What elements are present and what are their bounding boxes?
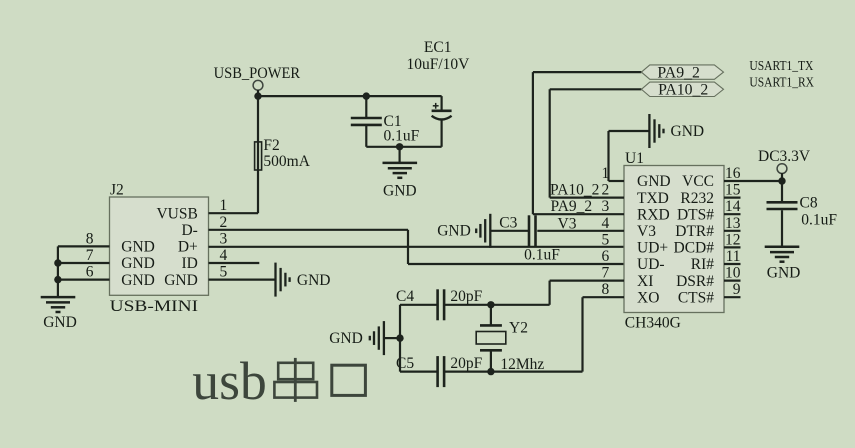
- svg-text:RXD: RXD: [637, 206, 670, 223]
- svg-text:D-: D-: [181, 222, 197, 239]
- svg-text:11: 11: [726, 248, 741, 265]
- svg-text:GND: GND: [437, 223, 471, 240]
- svg-text:GND: GND: [121, 272, 155, 289]
- svg-text:DC3.3V: DC3.3V: [758, 148, 811, 165]
- svg-text:DCD#: DCD#: [674, 240, 715, 257]
- svg-text:2: 2: [602, 182, 610, 199]
- svg-text:R232: R232: [680, 190, 714, 207]
- svg-text:C8: C8: [800, 194, 818, 211]
- svg-text:12: 12: [725, 231, 741, 248]
- svg-text:Y2: Y2: [509, 320, 528, 337]
- svg-text:CTS#: CTS#: [678, 289, 714, 306]
- svg-text:D+: D+: [178, 239, 198, 256]
- svg-text:13: 13: [725, 215, 741, 232]
- svg-text:8: 8: [86, 230, 94, 247]
- svg-text:VCC: VCC: [682, 173, 714, 190]
- svg-text:F2: F2: [263, 137, 279, 154]
- svg-text:PA10_2: PA10_2: [658, 82, 708, 99]
- svg-text:1: 1: [602, 165, 610, 182]
- svg-text:0.1uF: 0.1uF: [524, 246, 560, 263]
- svg-text:EC1: EC1: [424, 39, 452, 56]
- svg-text:V3: V3: [558, 215, 577, 232]
- svg-text:CH340G: CH340G: [625, 315, 681, 332]
- svg-text:V3: V3: [637, 223, 656, 240]
- svg-text:6: 6: [86, 264, 94, 281]
- svg-text:C5: C5: [396, 355, 414, 372]
- svg-text:4: 4: [602, 215, 610, 232]
- svg-text:TXD: TXD: [637, 190, 669, 207]
- svg-text:1: 1: [220, 197, 228, 214]
- svg-text:GND: GND: [164, 272, 198, 289]
- svg-text:GND: GND: [121, 255, 155, 272]
- svg-text:UD-: UD-: [637, 256, 665, 273]
- svg-text:7: 7: [86, 247, 94, 264]
- svg-text:8: 8: [602, 281, 610, 298]
- svg-text:USB_POWER: USB_POWER: [214, 65, 301, 82]
- svg-text:GND: GND: [297, 272, 331, 289]
- svg-text:10: 10: [725, 265, 741, 282]
- svg-text:0.1uF: 0.1uF: [384, 128, 420, 145]
- svg-text:usb: usb: [192, 351, 266, 411]
- svg-text:14: 14: [725, 198, 741, 215]
- svg-text:UD+: UD+: [637, 240, 668, 257]
- svg-text:DTS#: DTS#: [677, 206, 714, 223]
- svg-text:J2: J2: [110, 181, 124, 198]
- svg-text:DSR#: DSR#: [676, 273, 714, 290]
- svg-text:U1: U1: [625, 150, 644, 167]
- svg-text:C3: C3: [499, 215, 517, 232]
- svg-text:USART1_TX: USART1_TX: [749, 58, 813, 73]
- svg-text:PA9_2: PA9_2: [551, 198, 593, 215]
- svg-text:GND: GND: [383, 182, 417, 199]
- svg-text:10uF/10V: 10uF/10V: [406, 56, 470, 73]
- svg-text:2: 2: [220, 214, 228, 231]
- svg-text:16: 16: [725, 165, 741, 182]
- svg-text:VUSB: VUSB: [156, 205, 197, 222]
- svg-text:20pF: 20pF: [450, 355, 482, 372]
- svg-text:USART1_RX: USART1_RX: [749, 75, 814, 90]
- svg-text:7: 7: [602, 265, 610, 282]
- svg-text:6: 6: [602, 248, 610, 265]
- svg-text:PA9_2: PA9_2: [657, 64, 700, 81]
- svg-text:GND: GND: [43, 314, 77, 331]
- svg-text:3: 3: [602, 198, 610, 215]
- svg-text:PA10_2: PA10_2: [550, 181, 599, 198]
- svg-text:XO: XO: [637, 289, 659, 306]
- svg-text:XI: XI: [637, 273, 653, 290]
- svg-text:GND: GND: [329, 330, 363, 347]
- svg-text:GND: GND: [671, 123, 705, 140]
- svg-text:500mA: 500mA: [263, 153, 310, 170]
- svg-text:0.1uF: 0.1uF: [801, 212, 837, 229]
- svg-text:GND: GND: [767, 264, 801, 281]
- svg-text:RI#: RI#: [691, 256, 715, 273]
- svg-text:USB-MINI: USB-MINI: [110, 298, 199, 315]
- svg-text:9: 9: [733, 281, 741, 298]
- svg-text:20pF: 20pF: [450, 288, 482, 305]
- svg-text:4: 4: [220, 247, 228, 264]
- svg-text:15: 15: [725, 182, 741, 199]
- svg-text:12Mhz: 12Mhz: [500, 356, 544, 373]
- svg-text:C4: C4: [396, 288, 414, 305]
- svg-text:5: 5: [602, 231, 610, 248]
- svg-text:5: 5: [220, 264, 228, 281]
- svg-text:3: 3: [220, 230, 228, 247]
- svg-text:ID: ID: [181, 255, 197, 272]
- svg-text:GND: GND: [121, 239, 155, 256]
- svg-text:DTR#: DTR#: [675, 223, 714, 240]
- svg-text:GND: GND: [637, 173, 671, 190]
